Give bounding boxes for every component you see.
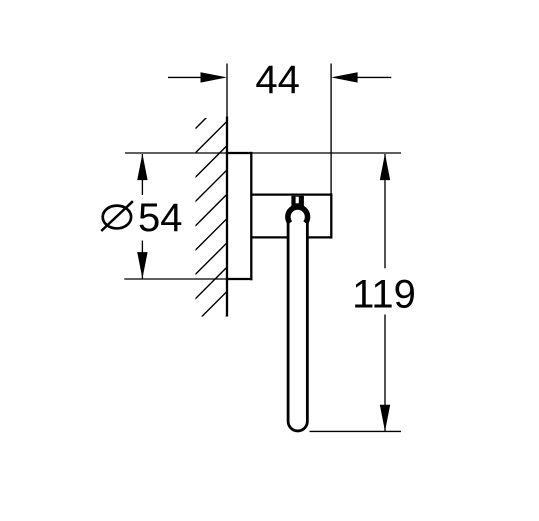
wall plate bottom edge (226, 278, 253, 280)
arrowhead diam54 up (137, 154, 147, 181)
arm bottom edge left part (251, 236, 287, 238)
dimension line 44 left segment (168, 76, 203, 78)
dimension line diam54 lower segment (141, 241, 143, 279)
dimension line 119 upper segment (384, 154, 386, 268)
arrowhead 119 up (380, 154, 390, 181)
dimension line diam54 upper segment (141, 154, 143, 195)
pivot pin slot (296, 197, 299, 204)
arm top edge (251, 193, 331, 195)
wall hatching (193, 97, 227, 350)
wall plate top edge (226, 152, 253, 154)
pivot pin (291, 196, 304, 208)
ring outline (stadium) (288, 218, 307, 431)
label diam symbol slash (101, 201, 133, 231)
arm bottom edge right part (308, 236, 332, 238)
arrowhead 44 left (201, 72, 228, 82)
arm right edge (330, 193, 332, 238)
dimension line 44 right segment (357, 76, 391, 78)
arrowhead diam54 down (137, 252, 147, 279)
ring top cap thick arc (288, 207, 308, 223)
label diam symbol circle (103, 206, 131, 229)
extension line horizontal bottom (119) (310, 430, 402, 432)
extension line horizontal bottom (diam 54) (124, 278, 252, 280)
wall line (226, 117, 228, 317)
arrowhead 44 right (331, 72, 358, 82)
extension line top left (44) (226, 64, 228, 119)
svg-text:54: 54 (138, 196, 183, 240)
extension line horizontal top (shared by diam54 and 119) (125, 152, 401, 154)
svg-text:119: 119 (352, 272, 416, 316)
dimension line 119 lower segment (384, 315, 386, 432)
wall plate right edge (250, 152, 252, 280)
extension line top right (44) (330, 64, 332, 195)
arrowhead 119 down (380, 405, 390, 432)
svg-text:44: 44 (255, 58, 300, 102)
